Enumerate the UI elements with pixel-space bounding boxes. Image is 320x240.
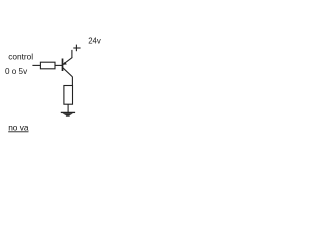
wire R2 to ground [67, 104, 69, 112]
transistor Q1 (PNP) [63, 57, 73, 77]
svg-text:no va: no va [8, 122, 29, 132]
svg-text:24v: 24v [88, 36, 101, 45]
resistor R1 (base) [40, 62, 55, 69]
wire R1 to base [55, 64, 63, 66]
svg-text:0 o 5v: 0 o 5v [5, 67, 28, 76]
power terminal + symbol [73, 45, 80, 52]
wire collector to R2 [71, 77, 73, 86]
ground [61, 112, 75, 116]
wire emitter to +24v [71, 50, 73, 58]
svg-text:control: control [8, 52, 33, 62]
wire input to R1 [32, 64, 40, 66]
resistor R2 (load) [64, 86, 73, 105]
